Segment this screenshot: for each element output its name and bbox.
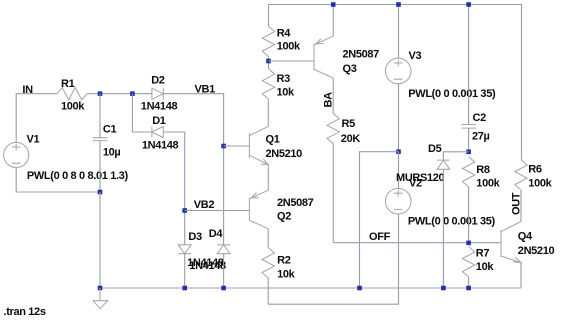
svg-text:Q4: Q4: [518, 230, 533, 242]
wire D3 cathode to rail: [184, 254, 186, 288]
diode D1: [152, 127, 163, 138]
diode D3: [178, 245, 191, 254]
junction C2/D5/R8: [466, 150, 471, 155]
voltage source V2: [385, 188, 411, 214]
transistor Q4: [501, 222, 521, 263]
wire R6 bottom to Q4 collector: [520, 190, 522, 222]
svg-text:VB2: VB2: [194, 199, 215, 211]
wire V2 top: [398, 152, 400, 189]
wire V1 bottom: [16, 168, 100, 192]
svg-text:PWL(0 0 0.001 35): PWL(0 0 0.001 35): [408, 88, 496, 100]
wire R1 to D2 anode: [87, 93, 152, 95]
resistor R5: [327, 113, 339, 143]
resistor R4: [262, 5, 274, 69]
junction top rail C2: [466, 2, 471, 7]
wire V3 top to rail: [398, 5, 400, 59]
wire R2 bottom U to V2 minus: [268, 214, 398, 304]
top rail: [269, 5, 522, 160]
ground rail: [100, 287, 521, 289]
svg-text:2N5210: 2N5210: [266, 148, 303, 160]
svg-text:C2: C2: [473, 112, 487, 124]
junction V3/V2: [396, 149, 401, 154]
junction rail D3: [182, 286, 187, 291]
junction R1/C1: [98, 91, 103, 96]
svg-text:BA: BA: [323, 92, 335, 108]
wire D1 cathode down to VB2: [163, 132, 184, 245]
diode D5: [437, 160, 450, 169]
junction R4/R3/Q3 base: [266, 59, 271, 64]
transistor Q1: [249, 126, 268, 164]
svg-text:OUT: OUT: [511, 192, 523, 215]
svg-text:R6: R6: [528, 164, 542, 176]
svg-text:D4: D4: [209, 228, 224, 240]
wire V1 top to R1: [16, 94, 57, 143]
wire R7 bottom to rail: [468, 277, 470, 288]
svg-text:Q1: Q1: [266, 134, 280, 146]
svg-text:27µ: 27µ: [472, 131, 490, 143]
junction VB1 column / Q1 base: [221, 144, 226, 149]
junction V1/C1 bottom: [98, 190, 103, 195]
wire D1 branch down: [132, 94, 152, 132]
svg-text:.tran 12s: .tran 12s: [4, 306, 46, 318]
wire Q2 collector to R2: [267, 229, 269, 248]
wire D2 cathode to VB1 corner: [163, 94, 223, 245]
junction rail x359: [357, 286, 362, 291]
wire OFF: [333, 242, 501, 244]
junction top rail Q3: [331, 2, 336, 7]
junction rail D4: [221, 286, 226, 291]
resistor R2: [262, 248, 274, 278]
svg-text:R5: R5: [342, 118, 356, 130]
resistor R7: [462, 247, 474, 277]
junction VB2: [182, 208, 187, 213]
svg-text:100k: 100k: [476, 178, 500, 190]
resistor R8: [462, 157, 474, 187]
svg-text:10k: 10k: [476, 261, 495, 273]
svg-text:20K: 20K: [341, 133, 361, 145]
diode D2: [152, 88, 163, 99]
capacitor C2: [461, 5, 476, 152]
svg-text:R2: R2: [277, 255, 291, 267]
junction D2/D1 split: [130, 91, 135, 96]
svg-text:V1: V1: [27, 134, 40, 146]
svg-text:R3: R3: [277, 73, 291, 85]
wire V3 bottom: [398, 84, 400, 152]
svg-text:10k: 10k: [277, 87, 296, 99]
capacitor C1: [93, 94, 108, 192]
wire C1 to ground rail: [99, 192, 101, 288]
wire Q3 emitter to top rail: [332, 5, 334, 37]
svg-text:R7: R7: [476, 248, 490, 260]
wire Q3 collector to R5: [332, 78, 334, 113]
wire D5 top: [443, 152, 468, 160]
svg-text:VB1: VB1: [195, 83, 216, 95]
svg-text:D1: D1: [152, 115, 166, 127]
diode D4: [217, 245, 230, 254]
svg-text:PWL(0 0 8 0 8.01 1.3): PWL(0 0 8 0 8.01 1.3): [27, 170, 129, 182]
svg-text:D3: D3: [188, 231, 202, 243]
resistor R6: [515, 160, 527, 190]
wire D4 cathode to rail: [223, 254, 225, 288]
svg-text:R8: R8: [476, 164, 490, 176]
wire D5 cathode to rail: [442, 169, 444, 288]
resistor R3: [262, 69, 274, 99]
junction rail C1: [98, 286, 103, 291]
junction OFF/R7: [466, 241, 471, 246]
svg-text:1N4148: 1N4148: [141, 101, 178, 113]
svg-text:1N4148: 1N4148: [189, 260, 226, 272]
svg-text:100k: 100k: [528, 178, 552, 190]
svg-text:IN: IN: [22, 84, 33, 96]
svg-text:Q3: Q3: [343, 63, 357, 75]
wire R8 bottom to OFF: [468, 187, 470, 243]
wire Q1 emitter to Q2 emitter: [267, 165, 269, 191]
voltage source V3: [385, 58, 411, 84]
svg-text:1N4148: 1N4148: [142, 140, 179, 152]
svg-text:2N5087: 2N5087: [343, 49, 380, 61]
svg-text:10µ: 10µ: [103, 146, 121, 158]
svg-text:Q2: Q2: [277, 210, 291, 222]
transistor Q2: [249, 190, 268, 229]
svg-text:PWL(0 0 0.001 35): PWL(0 0 0.001 35): [408, 216, 496, 228]
svg-text:10k: 10k: [277, 268, 296, 280]
svg-text:OFF: OFF: [369, 231, 391, 243]
resistor R1: [57, 88, 87, 100]
svg-text:R1: R1: [61, 78, 75, 90]
voltage source V1: [4, 142, 29, 167]
junction rail R7: [466, 286, 471, 291]
svg-text:D5: D5: [428, 143, 442, 155]
svg-text:100k: 100k: [277, 41, 301, 53]
svg-text:2N5087: 2N5087: [277, 197, 314, 209]
junction top rail V3: [396, 2, 401, 7]
svg-text:D2: D2: [151, 75, 165, 87]
svg-text:C1: C1: [103, 123, 117, 135]
ground: [93, 288, 108, 309]
svg-text:R4: R4: [277, 28, 292, 40]
svg-text:2N5210: 2N5210: [518, 245, 555, 257]
wire VB2 to Q2 base: [185, 210, 250, 212]
svg-text:V2: V2: [409, 178, 422, 190]
junction rail D5: [441, 286, 446, 291]
wire R5 bottom to OFF: [332, 144, 334, 243]
wire Q1 base: [224, 145, 250, 147]
svg-text:V3: V3: [409, 50, 422, 62]
wire Q1 collector to R3: [267, 99, 269, 126]
svg-text:100k: 100k: [61, 101, 85, 113]
wire Q3 base: [269, 60, 315, 62]
transistor Q3: [314, 36, 333, 78]
wire V3 minus to ground rail: [360, 152, 399, 288]
wire Q4 emitter to rail: [520, 263, 522, 288]
